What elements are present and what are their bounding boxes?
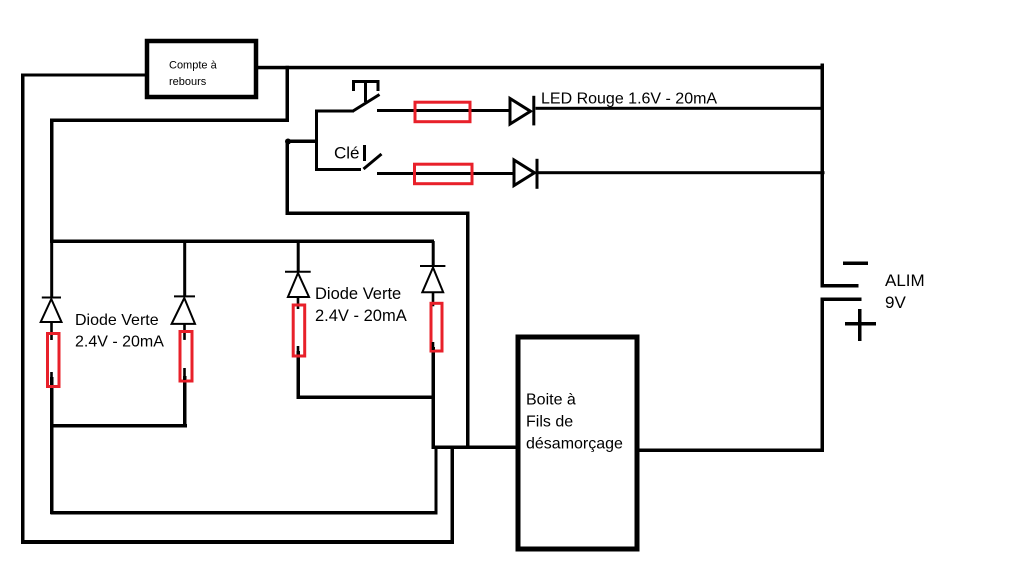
wire: horizontal y512 x52-437 — [51, 511, 438, 515]
wire: vertical x51 down to diode-array top — [50, 119, 54, 243]
svg-text:2.4V - 20mA: 2.4V - 20mA — [75, 334, 164, 351]
battery minus sign — [843, 262, 868, 266]
LED D6 (bottom red LED) — [514, 159, 537, 189]
resistor R3 (red vertical) — [48, 334, 60, 387]
battery plus sign — [858, 309, 862, 341]
wire: R4 bottom stub — [183, 368, 186, 380]
wire: bottom outer horizontal — [21, 540, 454, 544]
wire: R6 bottom stub — [432, 342, 435, 350]
wire: battery bottom lead vertical x822 — [821, 298, 825, 452]
junction dot at 287,141 — [285, 139, 291, 145]
wire: battery top lead vertical x822 — [821, 64, 825, 288]
battery bottom plate — [821, 298, 862, 302]
wire: D3 to resistor R5 stub — [297, 297, 300, 309]
switch Cle SW2 — [364, 145, 382, 169]
wire: Cle right to resistor R2 — [377, 172, 515, 175]
wire: vertical diode3 column bottom — [297, 351, 301, 399]
svg-text:Diode Verte: Diode Verte — [315, 285, 401, 303]
svg-text:2.4V - 20mA: 2.4V - 20mA — [315, 307, 407, 325]
wire: D4 to resistor R6 stub — [432, 292, 435, 306]
wire: horizontal y120 under Compte box — [50, 119, 289, 123]
wire: R5 bottom stub — [297, 346, 300, 354]
wire: left outer vertical — [21, 74, 25, 544]
box Boite a Fils de desamorcage — [518, 337, 637, 549]
wire: vertical x316 y111-170 — [315, 110, 318, 171]
svg-text:désamorçage: désamorçage — [526, 436, 623, 453]
resistor R4 (red vertical) — [180, 332, 192, 382]
wire: vertical diode2 column bottom — [183, 376, 187, 427]
wire: left wire into Boite box y447 — [432, 446, 517, 450]
svg-text:Diode Verte: Diode Verte — [75, 312, 159, 329]
wire: D1 to resistor R3 stub — [50, 322, 53, 340]
wire: pushbutton right to resistor R1 — [377, 109, 510, 112]
resistor R6 (red vertical) — [431, 303, 442, 351]
wire: vertical from bottom outer up to box-left wire — [451, 446, 455, 543]
resistor R2 (red, bottom) — [415, 164, 473, 184]
wire: horizontal y425 diode1-2 bottom link — [50, 424, 187, 428]
wire: vertical x436 y447-513 — [435, 446, 438, 514]
wire: vertical x287 y141-213 — [286, 140, 290, 215]
diode D3 (green, third) — [297, 241, 300, 272]
wire: horizontal y213 x287-468 — [286, 212, 470, 216]
wire: vertical x52 resistor1-bottom down to y513 — [50, 377, 54, 514]
wire: R3 bottom stub — [50, 372, 53, 382]
wire: right wire from Boite box to battery y450 — [631, 449, 823, 453]
battery ALIM top plate — [821, 284, 859, 288]
wire: Cle left horizontal y169.5 — [315, 168, 361, 171]
svg-text:LED Rouge 1.6V - 20mA: LED Rouge 1.6V - 20mA — [541, 91, 717, 108]
svg-text:Fils de: Fils de — [526, 414, 573, 431]
wire: vertical x468 y213-449 — [466, 212, 470, 449]
resistor R5 (red vertical) — [293, 305, 305, 356]
wire: D6 to battery vertical — [539, 171, 825, 174]
wire: pushbutton left horizontal y111 — [315, 110, 354, 113]
LED D5 (top red LED) — [510, 96, 534, 126]
diode D2 (green, second) — [183, 241, 186, 297]
svg-text:ALIM: ALIM — [885, 271, 925, 290]
wire: vertical drop at x287 from top wire — [286, 66, 290, 121]
svg-text:9V: 9V — [885, 293, 906, 312]
wire: D5 to battery vertical — [536, 107, 823, 110]
wire: horizontal y397 diode3-4 bottom link — [297, 396, 434, 400]
wire: diode-array top horizontal y241 — [50, 240, 434, 244]
wire: left feed into Compte box — [21, 74, 146, 77]
wire: vertical diode4 column bottom to y447 — [432, 347, 436, 449]
diode D1 (green, leftmost) — [50, 241, 53, 298]
wire: top horizontal from Compte box to battery — [258, 66, 823, 70]
svg-text:rebours: rebours — [169, 76, 207, 88]
push button SW1 — [353, 82, 380, 112]
resistor R1 (red, top) — [415, 102, 470, 122]
svg-text:Compte à: Compte à — [169, 60, 218, 72]
svg-text:Clé: Clé — [334, 144, 360, 163]
diode D4 (green, fourth) — [432, 241, 435, 266]
box Compte a rebours — [147, 41, 256, 97]
svg-text:Boite à: Boite à — [526, 392, 576, 409]
wire: Cle feed horizontal y141 — [286, 140, 318, 144]
wire: D2 to resistor R4 stub — [183, 324, 186, 340]
